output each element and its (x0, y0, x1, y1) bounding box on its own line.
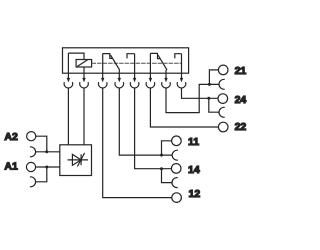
terminal 21 socket arc (219, 79, 225, 89)
diode D1 cathode bar (80, 154, 82, 165)
wire 14 socket branch (162, 169, 173, 183)
wire pin7 to node 21 (166, 84, 219, 112)
coil K1 rectangle (76, 60, 92, 68)
wire terminal 11 branch (162, 141, 172, 155)
terminal 12 circle (172, 193, 182, 203)
pin 4 socket arc (115, 82, 124, 88)
wire 24 socket branch (209, 98, 219, 112)
contact 2 blade (158, 55, 167, 70)
pin 6 socket arc (146, 82, 155, 88)
wire A1 circle to diode box (36, 166, 60, 168)
terminal 24 socket arc (219, 107, 225, 117)
wire pin5 to node 14 (135, 88, 172, 169)
pin 5 socket arc (130, 82, 139, 88)
wire pin 8 (181, 54, 183, 79)
wire A2 circle to node (36, 136, 47, 152)
terminal 14 circle (171, 164, 181, 174)
wire pin 3 (102, 54, 104, 79)
node dot A2 (45, 150, 48, 153)
pin 2 plug arrow (82, 78, 85, 83)
terminal 11 socket arc (172, 150, 178, 160)
wire pin4 to node 11 (119, 88, 172, 155)
wire pin 6 (149, 53, 151, 78)
terminal 21 circle (218, 65, 228, 75)
wire pin6 to terminal 22 (150, 88, 218, 127)
svg-text:14: 14 (188, 164, 200, 176)
terminal 14 socket arc (172, 178, 178, 188)
contact 2 NO seat (pin 24) (175, 54, 182, 59)
contact 1 NC seat (pin 12) (103, 54, 113, 59)
wire A1 socket to node (35, 167, 46, 182)
pin 2 socket arc (80, 82, 89, 88)
diode diagonal stroke (77, 153, 84, 167)
contact 1 NO seat (pin 14) (127, 54, 135, 59)
pin 1 plug arrow (67, 78, 70, 83)
node dot 21 (208, 83, 211, 86)
pin 3 plug arrow (101, 78, 104, 83)
contact 1 blade (111, 55, 120, 70)
pin 4 plug arrow (118, 78, 121, 83)
terminal A1 circle (26, 162, 35, 171)
diode axis wire (68, 159, 89, 161)
wire pin8 to terminal 24 (182, 88, 219, 98)
svg-text:22: 22 (235, 121, 247, 133)
svg-text:11: 11 (188, 136, 199, 148)
terminal 24 circle (218, 94, 228, 104)
wire A2 socket to diode box (35, 151, 59, 153)
terminal 11 circle (172, 136, 182, 146)
relay module box (63, 48, 189, 73)
wire coil bottom to pin 2 (83, 67, 85, 78)
node dot 14 (160, 167, 163, 170)
wire terminal 21 branch (209, 70, 218, 85)
contact 2 NC seat (pin 22) (150, 53, 160, 58)
svg-text:12: 12 (189, 188, 201, 200)
wire pin 5 (134, 54, 136, 79)
pin 7 plug arrow (164, 78, 167, 83)
coil K1 loop wire (68, 53, 84, 59)
diode D1 triangle (72, 154, 81, 165)
terminal A2 circle (27, 132, 36, 141)
wire pin 1 (67, 53, 69, 78)
pin 8 socket arc (177, 82, 186, 88)
wire pin3 to terminal 12 (103, 88, 172, 198)
coil slash (77, 60, 87, 67)
wire pin 7 (165, 70, 167, 79)
wire pin 4 (118, 70, 120, 79)
svg-text:24: 24 (235, 94, 247, 106)
pin 1 socket arc (64, 82, 73, 88)
svg-text:21: 21 (235, 65, 247, 77)
wire pin1 to diode box (67, 88, 69, 145)
pin 6 plug arrow (149, 78, 152, 83)
node dot 11 (160, 154, 163, 157)
input diode box (60, 145, 92, 176)
mechanical link dashed line (92, 62, 181, 64)
terminal A2 socket arc (30, 147, 36, 157)
pin 7 socket arc (162, 82, 171, 88)
pin 3 socket arc (98, 82, 107, 88)
svg-text:A1: A1 (4, 161, 18, 173)
terminal A1 socket arc (30, 177, 36, 187)
node dot A1 (45, 166, 48, 169)
wire pin2 to diode box (83, 88, 85, 145)
node dot 24 (207, 97, 210, 100)
pin 5 plug arrow (133, 78, 136, 83)
terminal 22 circle (218, 122, 228, 132)
pin 8 plug arrow (180, 78, 183, 83)
svg-text:A2: A2 (4, 131, 18, 143)
